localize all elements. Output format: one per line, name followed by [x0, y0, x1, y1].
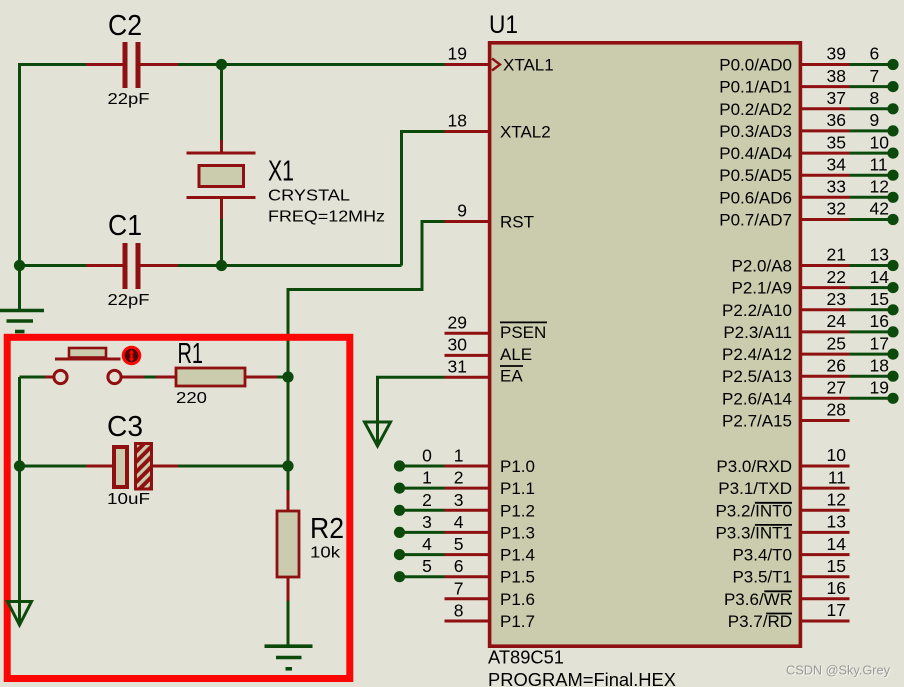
pin stub PSEN 29	[445, 332, 490, 335]
capacitor C2	[123, 42, 128, 88]
svg-text:P1.7: P1.7	[500, 612, 535, 631]
svg-text:35: 35	[827, 132, 846, 152]
pin 32 P0.7/AD7	[802, 218, 850, 221]
svg-text:P0.7/AD7: P0.7/AD7	[719, 211, 792, 230]
svg-text:10uF: 10uF	[107, 491, 150, 508]
svg-text:C3: C3	[107, 411, 143, 443]
pin 39 P0.0/AD0	[802, 63, 850, 66]
clock input symbol at XTAL1	[492, 59, 500, 71]
svg-text:P1.6: P1.6	[500, 590, 535, 609]
node junction at C2/crystal	[216, 59, 227, 70]
svg-text:9: 9	[457, 201, 467, 221]
svg-text:11: 11	[828, 467, 846, 487]
svg-text:16: 16	[827, 578, 846, 598]
svg-text:CRYSTAL: CRYSTAL	[268, 188, 350, 205]
node junction C3 left	[14, 460, 25, 471]
svg-text:P3.5/T1: P3.5/T1	[732, 568, 792, 587]
svg-text:16: 16	[870, 311, 889, 331]
svg-text:RST: RST	[500, 213, 534, 232]
pin stub ALE 30	[445, 354, 490, 357]
svg-text:27: 27	[827, 378, 846, 398]
svg-text:P1.2: P1.2	[500, 501, 535, 520]
svg-text:P2.5/A13: P2.5/A13	[722, 367, 792, 386]
svg-text:CSDN @Sky.Grey: CSDN @Sky.Grey	[786, 662, 890, 677]
svg-text:8: 8	[870, 88, 880, 108]
svg-text:P1.1: P1.1	[500, 479, 535, 498]
svg-text:23: 23	[827, 289, 846, 309]
svg-text:25: 25	[827, 333, 846, 353]
svg-text:2: 2	[454, 468, 464, 488]
pin 2 P1.1	[445, 487, 490, 490]
svg-text:P3.2/INT0: P3.2/INT0	[715, 501, 792, 520]
svg-text:6: 6	[870, 44, 880, 64]
svg-text:AT89C51: AT89C51	[488, 648, 564, 668]
ground symbol top-left	[0, 309, 44, 313]
svg-text:15: 15	[827, 556, 846, 576]
svg-text:13: 13	[870, 245, 889, 265]
push-button interactive red toggle	[122, 346, 142, 366]
node junction at C1/crystal	[216, 260, 227, 271]
svg-text:P1.5: P1.5	[500, 568, 535, 587]
svg-text:33: 33	[827, 177, 846, 197]
pin 17 P3.7/RD	[802, 620, 850, 623]
svg-text:P3.1/TXD: P3.1/TXD	[718, 479, 792, 498]
wire C3 row	[20, 465, 87, 468]
capacitor C3 left plate	[114, 447, 127, 487]
svg-text:1: 1	[454, 446, 464, 466]
svg-text:14: 14	[827, 534, 847, 554]
svg-text:P1.0: P1.0	[500, 457, 535, 476]
svg-text:36: 36	[827, 110, 846, 130]
svg-text:19: 19	[870, 378, 889, 398]
pin 8 P1.7	[445, 620, 490, 623]
svg-text:18: 18	[870, 355, 889, 375]
svg-text:P3.7/RD: P3.7/RD	[728, 612, 792, 631]
svg-text:R2: R2	[310, 513, 344, 545]
svg-text:24: 24	[827, 311, 847, 331]
svg-text:31: 31	[448, 357, 467, 377]
svg-text:3: 3	[422, 512, 432, 532]
svg-text:P0.4/AD4: P0.4/AD4	[719, 144, 792, 163]
svg-text:PSEN: PSEN	[500, 323, 546, 342]
svg-text:19: 19	[448, 44, 467, 64]
svg-text:21: 21	[827, 245, 846, 265]
svg-text:P0.6/AD6: P0.6/AD6	[719, 188, 792, 207]
push-button left terminal	[54, 370, 67, 383]
svg-text:X1: X1	[268, 156, 294, 188]
svg-text:6: 6	[454, 556, 464, 576]
pin 33 P0.6/AD6	[802, 196, 850, 199]
wire XTAL1 net: left rail top + C2 row to pin 19	[20, 65, 87, 266]
svg-text:5: 5	[454, 534, 464, 554]
pin 28 P2.7/A15	[802, 419, 850, 422]
svg-text:P2.1/A9: P2.1/A9	[732, 279, 793, 298]
op-amp U1 AT89C51 body	[490, 43, 801, 646]
node junction R1/RST/R2	[282, 371, 293, 382]
svg-text:1: 1	[422, 468, 432, 488]
svg-text:17: 17	[827, 600, 846, 620]
wire C1 row / XTAL2 net to pin 18	[20, 264, 87, 267]
svg-text:22pF: 22pF	[108, 292, 150, 309]
svg-text:P3.4/T0: P3.4/T0	[732, 546, 792, 565]
svg-text:2: 2	[422, 490, 432, 510]
svg-text:P2.6/A14: P2.6/A14	[722, 389, 792, 408]
wire EA net: pin 31 to arrow ground	[445, 376, 490, 379]
crystal X1	[187, 152, 256, 155]
svg-text:4: 4	[454, 512, 464, 532]
svg-text:P2.4/A12: P2.4/A12	[722, 345, 792, 364]
push-button SW actuator bar	[55, 358, 121, 361]
pin 24 P2.3/A11	[802, 330, 850, 333]
wire RST net: pin 9 down to reset junction	[445, 220, 490, 223]
pin 21 P2.0/A8	[802, 264, 850, 267]
wire R2 column down to ground	[287, 377, 290, 466]
svg-text:4: 4	[422, 534, 432, 554]
svg-text:38: 38	[827, 66, 846, 86]
svg-text:P2.3/A11: P2.3/A11	[723, 323, 792, 342]
svg-text:R1: R1	[178, 338, 204, 370]
svg-text:26: 26	[827, 355, 846, 375]
pin 16 P3.6/WR	[802, 597, 850, 600]
push-button right terminal	[108, 370, 121, 383]
capacitor C3 right plate (hatched)	[136, 444, 152, 490]
arrow ground below EA pin	[365, 422, 391, 446]
svg-text:10k: 10k	[310, 545, 341, 562]
svg-text:30: 30	[448, 335, 468, 355]
svg-text:10: 10	[827, 445, 847, 465]
svg-text:15: 15	[870, 289, 889, 309]
svg-text:P3.0/RXD: P3.0/RXD	[716, 457, 792, 476]
pin 3 P1.2	[445, 509, 490, 512]
svg-text:13: 13	[827, 512, 846, 532]
push-button plunger	[69, 348, 106, 358]
svg-text:0: 0	[422, 446, 432, 466]
svg-text:U1: U1	[489, 11, 518, 39]
pin 15 P3.5/T1	[802, 575, 850, 578]
svg-text:14: 14	[870, 267, 890, 287]
svg-text:P2.7/A15: P2.7/A15	[722, 412, 792, 431]
svg-text:P0.2/AD2: P0.2/AD2	[719, 100, 792, 119]
pin 11 P3.1/TXD	[802, 487, 850, 490]
capacitor C1	[123, 243, 128, 289]
svg-text:22pF: 22pF	[108, 91, 150, 108]
svg-text:8: 8	[454, 601, 464, 621]
pin 34 P0.5/AD5	[802, 174, 850, 177]
svg-text:32: 32	[827, 199, 846, 219]
highlight rectangle (red)	[7, 337, 350, 678]
resistor R1	[176, 368, 245, 386]
wire crystal branch vertical at x=221.5	[220, 65, 223, 141]
pin 10 P3.0/RXD	[802, 465, 850, 468]
svg-text:P3.6/WR: P3.6/WR	[724, 590, 792, 609]
pin 1 P1.0	[445, 465, 490, 468]
pin 14 P3.4/T0	[802, 553, 850, 556]
pin 36 P0.3/AD3	[802, 129, 850, 132]
pin 37 P0.2/AD2	[802, 107, 850, 110]
svg-text:7: 7	[454, 578, 464, 598]
pin 23 P2.2/A10	[802, 308, 850, 311]
svg-text:FREQ=12MHz: FREQ=12MHz	[268, 209, 385, 226]
svg-text:P1.4: P1.4	[500, 546, 535, 565]
wire left rail lower: button row down to arrow ground	[18, 377, 21, 624]
pin 13 P3.3/INT1	[802, 531, 850, 534]
arrow ground bottom-left	[8, 602, 32, 626]
pin 38 P0.1/AD1	[802, 85, 850, 88]
svg-text:XTAL2: XTAL2	[500, 123, 551, 142]
pin 22 P2.1/A9	[802, 286, 850, 289]
svg-text:34: 34	[827, 154, 847, 174]
svg-text:C1: C1	[108, 210, 142, 242]
svg-text:10: 10	[870, 132, 890, 152]
svg-text:XTAL1: XTAL1	[503, 56, 554, 75]
svg-text:22: 22	[827, 267, 846, 287]
svg-text:12: 12	[870, 177, 889, 197]
svg-text:P2.0/A8: P2.0/A8	[732, 257, 793, 276]
svg-text:EA: EA	[500, 367, 523, 386]
svg-text:39: 39	[827, 44, 846, 64]
svg-text:5: 5	[422, 556, 432, 576]
wire ground stem below C1 junction	[18, 266, 21, 310]
svg-text:P0.5/AD5: P0.5/AD5	[719, 166, 792, 185]
svg-text:9: 9	[870, 110, 880, 130]
ground symbol below R2	[265, 644, 313, 648]
node junction C3 right	[282, 460, 293, 471]
pin 7 P1.6	[445, 597, 490, 600]
svg-text:P2.2/A10: P2.2/A10	[722, 301, 792, 320]
svg-text:P3.3/INT1: P3.3/INT1	[715, 523, 792, 542]
svg-text:18: 18	[448, 111, 467, 131]
pin 4 P1.3	[445, 531, 490, 534]
svg-text:P0.0/AD0: P0.0/AD0	[719, 56, 792, 75]
svg-text:17: 17	[870, 333, 889, 353]
svg-text:12: 12	[827, 490, 846, 510]
svg-text:37: 37	[827, 88, 846, 108]
svg-text:220: 220	[176, 390, 207, 407]
resistor R2	[277, 511, 299, 577]
pin 25 P2.4/A12	[802, 353, 850, 356]
pin 5 P1.4	[445, 553, 490, 556]
pin 26 P2.5/A13	[802, 375, 850, 378]
svg-text:7: 7	[870, 66, 880, 86]
svg-text:P1.3: P1.3	[500, 523, 535, 542]
svg-text:P0.3/AD3: P0.3/AD3	[719, 122, 792, 141]
svg-text:29: 29	[448, 312, 467, 332]
node junction at C1/left-rail	[14, 260, 25, 271]
svg-text:P0.1/AD1: P0.1/AD1	[719, 78, 792, 97]
svg-text:28: 28	[827, 400, 846, 420]
pin 35 P0.4/AD4	[802, 152, 850, 155]
pin 12 P3.2/INT0	[802, 509, 850, 512]
pin 27 P2.6/A14	[802, 397, 850, 400]
svg-text:3: 3	[454, 490, 464, 510]
svg-text:11: 11	[870, 154, 888, 174]
svg-text:ALE: ALE	[500, 345, 532, 364]
svg-text:C2: C2	[108, 10, 142, 42]
pin 6 P1.5	[445, 575, 490, 578]
svg-text:42: 42	[870, 199, 889, 219]
svg-text:PROGRAM=Final.HEX: PROGRAM=Final.HEX	[488, 670, 676, 687]
wire button row: rail to button to R1 to junction	[20, 376, 46, 379]
